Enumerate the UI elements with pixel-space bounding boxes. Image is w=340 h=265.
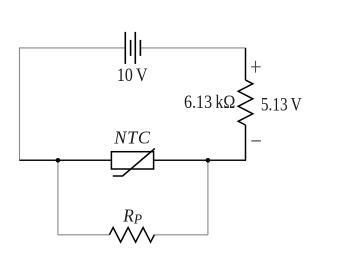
thermistor diagonal: [113, 149, 155, 177]
junction dot left: [56, 158, 61, 163]
wire bottom-left to RP: [58, 234, 110, 236]
minus sign: [251, 140, 261, 142]
wire bottom-right from RP: [154, 234, 208, 236]
wire NTC to right branch (component thickness): [154, 159, 247, 161]
svg-text:6.13 kΩ: 6.13 kΩ: [184, 93, 235, 113]
wire top-right from battery to corner: [141, 47, 246, 49]
wire right drop to bottom branch: [207, 160, 209, 235]
svg-text:10 V: 10 V: [117, 66, 148, 86]
plus sign: [251, 61, 261, 73]
svg-text:5.13 V: 5.13 V: [261, 96, 302, 116]
thermistor NTC box: [111, 149, 154, 177]
resistor RP zigzag: [109, 228, 154, 243]
wire top-left from corner to battery: [20, 47, 126, 49]
wire middle-left to NTC (thermistor branch, component thickness): [20, 159, 112, 161]
wire left side: [19, 47, 21, 160]
svg-text:NTC: NTC: [113, 128, 151, 148]
battery V1 plates: [125, 32, 140, 64]
wire left drop to bottom branch: [57, 160, 59, 235]
resistor 6.13 kOhm (right branch, thick leads + zigzag): [238, 48, 253, 160]
junction dot right: [206, 158, 211, 163]
